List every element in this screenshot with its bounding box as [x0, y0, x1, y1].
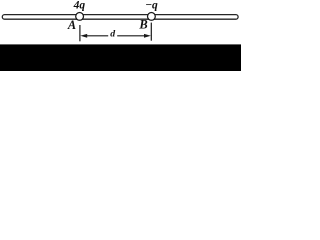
svg-text:A: A: [67, 18, 76, 32]
right arrowhead: [144, 34, 151, 38]
svg-text:4q: 4q: [73, 0, 86, 12]
left arrowhead: [80, 34, 87, 38]
svg-text:d: d: [110, 29, 116, 40]
black bar (censored region): [0, 44, 241, 71]
dimension line left segment: [86, 35, 108, 37]
charge A (4q) circle: [76, 13, 84, 21]
extension tick below A: [79, 25, 81, 41]
charge B (-q) circle: [148, 13, 156, 21]
rod (charged insulating rod): [2, 15, 238, 20]
dimension line right segment: [117, 35, 145, 37]
extension tick below B: [150, 23, 152, 41]
svg-text:−q: −q: [145, 0, 158, 11]
svg-text:B: B: [138, 18, 147, 32]
